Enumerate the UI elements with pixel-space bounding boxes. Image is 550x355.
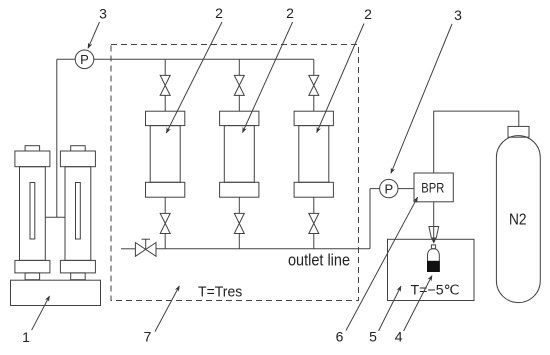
back-pressure regulator BPR (item 6): [414, 173, 453, 202]
wire to outlet 3: [313, 234, 315, 249]
label 2 leader (reactor 1): [166, 22, 222, 133]
syringe pump B body: [60, 146, 95, 280]
wire feed manifold: [94, 58, 314, 60]
wire outlet line: [156, 248, 370, 250]
wire inlet stub: [121, 248, 135, 250]
valve bottom reactor 2: [234, 213, 244, 233]
wire pump to gauge: [57, 58, 75, 60]
collection vial (item 4): [428, 245, 440, 272]
svg-text:2: 2: [364, 6, 372, 22]
wire cap to valve 2: [238, 197, 240, 213]
syringe pump A body: [15, 146, 50, 280]
label 4 leader: [404, 276, 432, 332]
wire valve to cap 2: [238, 95, 240, 111]
wire pump crossover: [45, 216, 65, 218]
wire cap to valve 3: [313, 197, 315, 213]
svg-text:T=Tres: T=Tres: [198, 283, 242, 300]
reactor R3 (item 2): [294, 111, 333, 197]
dashed thermostat enclosure (item 7): [111, 45, 359, 301]
label 2 leader (reactor 2): [243, 22, 293, 133]
label 2 leader (reactor 3): [317, 24, 364, 133]
label 6 leader: [346, 197, 418, 330]
svg-text:P: P: [80, 52, 89, 67]
wire valve to cap 1: [164, 95, 166, 111]
label 3 leader: [88, 22, 100, 48]
wire riser to gauge: [370, 188, 380, 190]
N2 cylinder neck: [508, 126, 529, 137]
pump unit base (item 1): [11, 280, 101, 305]
svg-text:2: 2: [215, 5, 223, 21]
wire branch 1: [164, 59, 166, 75]
svg-text:7: 7: [144, 329, 152, 345]
svg-text:4: 4: [395, 329, 403, 345]
svg-text:3: 3: [454, 7, 462, 23]
funnel: [429, 227, 439, 239]
svg-text:1: 1: [22, 329, 30, 345]
valve bottom reactor 3: [309, 213, 319, 233]
wire branch 2: [238, 59, 240, 75]
wire outlet riser: [369, 189, 371, 249]
pressure gauge P1 (item 3): [75, 50, 94, 69]
wire cap to valve 1: [164, 197, 166, 213]
valve top reactor 1: [160, 75, 170, 95]
wire pump riser: [56, 59, 58, 217]
svg-text:3: 3: [99, 6, 107, 22]
svg-text:N2: N2: [509, 212, 527, 229]
svg-text:outlet line: outlet line: [288, 250, 350, 269]
svg-text:6: 6: [336, 329, 344, 345]
cold bath box (item 5): [388, 239, 475, 300]
wire gauge to BPR: [398, 188, 414, 190]
label 5 leader: [379, 286, 402, 331]
wire branch 3: [313, 59, 315, 75]
svg-text:BPR: BPR: [421, 180, 444, 196]
wire valve to cap 3: [313, 95, 315, 111]
label 1 leader: [32, 296, 50, 330]
valve bottom reactor 1: [160, 213, 170, 233]
valve top reactor 3: [309, 75, 319, 95]
svg-text:T=−5℃: T=−5℃: [411, 281, 460, 297]
wire to outlet 1: [164, 234, 166, 249]
reactor R1 (item 2): [146, 111, 185, 197]
svg-text:P: P: [384, 181, 393, 196]
wire BPR to collector: [433, 202, 435, 239]
svg-text:2: 2: [286, 5, 294, 21]
wire to outlet 2: [238, 234, 240, 249]
N2 cylinder: [496, 136, 540, 303]
label 7 leader: [155, 286, 179, 332]
wire BPR to N2: [434, 111, 519, 173]
pressure gauge P2 (item 3): [380, 179, 398, 197]
label 3 leader (gauge P2): [391, 24, 452, 173]
svg-text:5: 5: [369, 329, 377, 345]
flow arrowhead into vial: [431, 239, 436, 244]
valve top reactor 2: [234, 75, 244, 95]
reactor R2 (item 2): [220, 111, 259, 197]
shut-off valve on outlet line: [135, 239, 156, 256]
